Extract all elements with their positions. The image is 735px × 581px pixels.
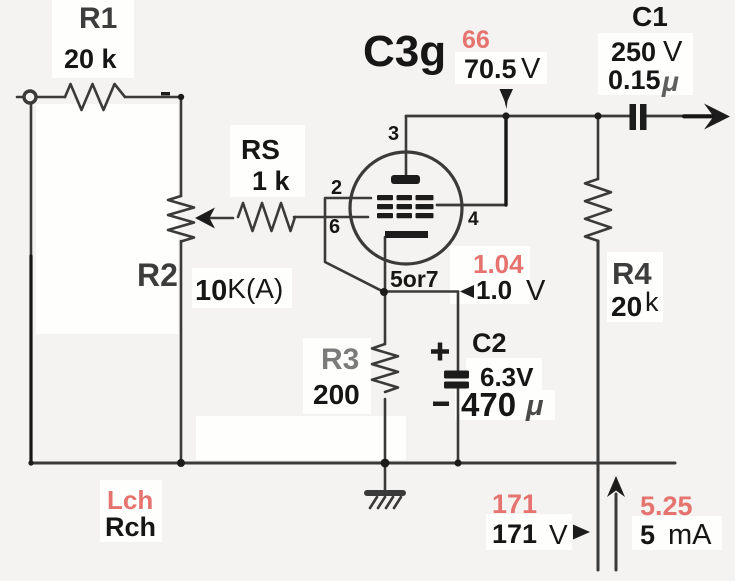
svg-text:k: k [645, 287, 659, 317]
svg-text:mA: mA [668, 519, 712, 551]
svg-text:R1: R1 [79, 2, 117, 35]
svg-text:RS: RS [241, 134, 280, 165]
svg-text:V: V [526, 275, 546, 307]
svg-text:200: 200 [313, 379, 360, 410]
svg-text:V: V [521, 53, 541, 85]
svg-text:20 k: 20 k [64, 44, 118, 74]
svg-text:V: V [663, 36, 683, 68]
svg-text:20: 20 [611, 291, 642, 322]
svg-text:R2: R2 [137, 257, 178, 293]
svg-text:3: 3 [388, 123, 399, 145]
svg-text:R3: R3 [321, 343, 359, 376]
svg-text:5.25: 5.25 [640, 491, 693, 521]
svg-text:C1: C1 [632, 1, 668, 32]
svg-text:R4: R4 [612, 256, 652, 291]
svg-text:μ: μ [661, 66, 679, 97]
svg-text:171: 171 [492, 519, 537, 549]
svg-text:250: 250 [611, 37, 656, 67]
svg-text:V: V [549, 519, 568, 550]
svg-text:470: 470 [461, 386, 516, 423]
svg-text:2: 2 [331, 177, 342, 199]
svg-text:0.15: 0.15 [608, 65, 661, 95]
svg-text:μ: μ [525, 390, 544, 422]
svg-text:1.04: 1.04 [473, 249, 524, 279]
svg-text:Rch: Rch [105, 512, 156, 542]
svg-text:4: 4 [468, 209, 479, 230]
svg-text:5: 5 [640, 520, 655, 550]
svg-text:10K(A): 10K(A) [195, 273, 283, 307]
svg-text:5or7: 5or7 [390, 266, 439, 292]
svg-text:C3g: C3g [363, 27, 446, 76]
svg-text:171: 171 [492, 489, 537, 519]
svg-text:Lch: Lch [107, 485, 153, 515]
svg-text:66: 66 [462, 26, 490, 54]
svg-text:6: 6 [329, 216, 340, 238]
svg-text:C2: C2 [472, 328, 507, 358]
svg-text:70.5: 70.5 [464, 54, 517, 84]
svg-text:1 k: 1 k [252, 166, 291, 196]
svg-text:1.0: 1.0 [476, 275, 512, 305]
